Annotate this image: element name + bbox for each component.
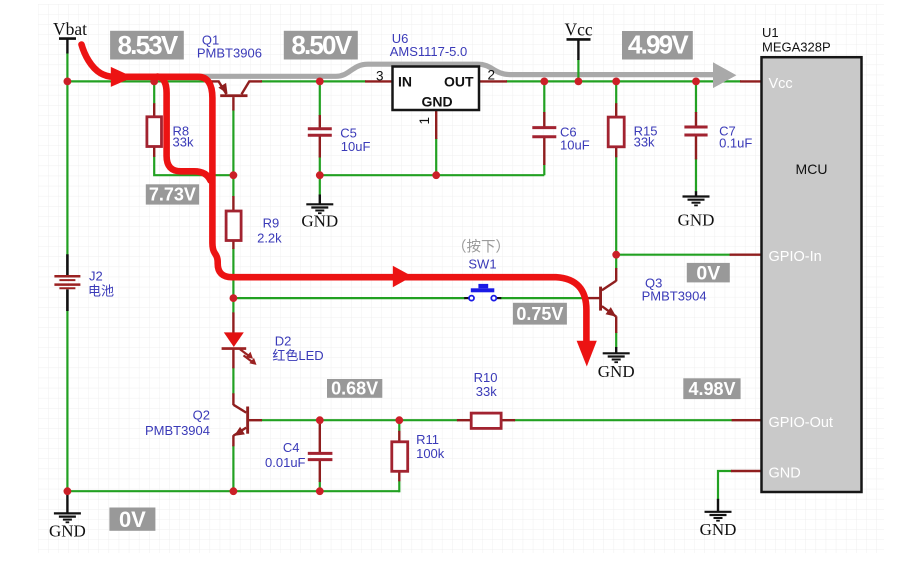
capacitor C6	[532, 125, 589, 153]
wire Q2 base to R10	[261, 419, 458, 421]
capacitor C5	[308, 126, 371, 155]
svg-text:33k: 33k	[476, 384, 497, 399]
pin lead R10 left	[457, 419, 472, 421]
pin lead C4 top	[319, 420, 321, 452]
wire R11 top stub	[398, 420, 400, 432]
pin lead C4 bottom	[319, 461, 321, 482]
svg-text:AMS1117-5.0: AMS1117-5.0	[390, 44, 468, 59]
node C4 top junction	[316, 416, 324, 424]
pin lead R11 bottom	[398, 470, 400, 481]
svg-text:33k: 33k	[634, 135, 655, 150]
wire C6 top stub	[543, 81, 545, 113]
red flow arrowhead into bus	[111, 67, 133, 87]
svg-text:U1: U1	[762, 25, 779, 40]
ground under Q3	[598, 347, 635, 381]
wire R15 top stub	[615, 81, 617, 104]
wire Vcc terminal stub	[577, 59, 579, 81]
voltage annotation 4.99V	[622, 30, 693, 60]
svg-text:PMBT3904: PMBT3904	[642, 289, 707, 304]
capacitor C4	[265, 440, 332, 470]
node Vcc junction	[575, 78, 583, 86]
svg-text:8.53V: 8.53V	[118, 30, 179, 60]
pin lead R15 bottom	[615, 146, 617, 158]
node GPIO-In junction	[612, 251, 620, 259]
wire C5 bottom stub	[319, 157, 321, 176]
gray Vcc supply highlight path	[194, 62, 736, 88]
gray flow arrowhead (over bus wire)	[713, 62, 736, 88]
svg-text:IN: IN	[398, 74, 412, 90]
svg-text:GND: GND	[49, 522, 86, 541]
svg-text:红色LED: 红色LED	[272, 348, 323, 363]
node C6 top junction	[540, 78, 548, 86]
pin lead Q2 base	[249, 419, 262, 421]
svg-text:GND: GND	[421, 94, 452, 110]
power terminal Vbat	[53, 19, 87, 53]
resistor R9	[226, 211, 282, 246]
pin lead C7 top	[695, 112, 697, 128]
wire Q3 collector stub	[615, 255, 617, 269]
pin lead U6 pin3 IN	[365, 80, 393, 82]
pin lead D2 cathode	[232, 349, 234, 368]
pin lead MCU Vcc	[740, 80, 761, 82]
svg-text:4.98V: 4.98V	[688, 379, 735, 399]
svg-text:SW1: SW1	[468, 257, 496, 272]
svg-text:PMBT3904: PMBT3904	[145, 423, 210, 438]
red current flow path main	[82, 45, 587, 343]
wire C4 bottom stub	[319, 481, 321, 492]
svg-text:0.1uF: 0.1uF	[719, 136, 752, 151]
svg-text:1: 1	[417, 117, 432, 125]
node ground rail left junction	[64, 487, 72, 495]
wire C6 bottom corner	[543, 164, 545, 175]
pin lead C7 bottom	[695, 136, 697, 160]
voltage annotation 8.50V	[284, 30, 358, 60]
pin lead R9 top	[232, 196, 234, 212]
wire R15 bottom to GPIO-In node	[615, 156, 617, 254]
svg-text:MCU: MCU	[796, 161, 828, 177]
pin lead R15 top	[615, 103, 617, 118]
wire Vbat terminal stub	[66, 53, 68, 82]
svg-text:0.01uF: 0.01uF	[265, 455, 306, 470]
pin lead GPIO-In	[730, 253, 761, 255]
voltage annotation 0.75V	[513, 303, 567, 325]
pin lead Q3 collector	[615, 268, 617, 281]
svg-text:0.68V: 0.68V	[331, 379, 378, 399]
pin lead U6 pin2 OUT	[479, 80, 507, 82]
svg-text:OUT: OUT	[444, 74, 474, 90]
transistor Q2 PMBT3904	[145, 405, 249, 438]
svg-text:7.73V: 7.73V	[149, 185, 196, 205]
LED D2	[222, 332, 324, 365]
pin lead R11 top	[398, 431, 400, 443]
regulator U6 AMS1117-5.0	[376, 31, 495, 125]
ground bottom right under MCU	[700, 499, 737, 539]
red flow arrowhead down at Q3	[577, 341, 597, 367]
pin lead Q1 emitter bus stub	[207, 80, 220, 82]
wire Q1 base down	[232, 110, 234, 176]
pin lead R9 bottom	[232, 240, 234, 249]
battery J2	[54, 254, 114, 311]
node C7 top junction	[692, 78, 700, 86]
red flow arrowhead toward switch	[393, 266, 413, 287]
wire ground rail	[67, 490, 399, 492]
wire GND bus under regulator	[320, 174, 545, 176]
pin lead GPIO-Out	[732, 419, 761, 421]
transistor Q3 PMBT3904	[599, 276, 707, 317]
pin lead C6 top	[543, 112, 545, 127]
wire GPIO-In node to pin	[616, 254, 730, 256]
pin lead R8 top	[153, 103, 155, 118]
svg-text:3: 3	[376, 68, 384, 83]
svg-text:PMBT3906: PMBT3906	[197, 46, 262, 61]
node Q2 emitter rail junction	[230, 487, 238, 495]
wire MCU GND pin corner	[718, 471, 732, 500]
wire SW node to switch	[233, 297, 465, 299]
pin lead C6 bottom	[543, 138, 545, 165]
svg-text:33k: 33k	[173, 134, 194, 149]
wire LED cathode to Q2 collector	[232, 367, 234, 394]
red current flow branch through R8	[158, 77, 211, 181]
svg-text:R10: R10	[474, 370, 498, 385]
svg-text:J2: J2	[89, 268, 103, 283]
pin lead D2 anode	[232, 312, 234, 333]
pin lead R10 right	[500, 419, 515, 421]
capacitor C7	[684, 123, 752, 150]
MCU U1 MEGA328P	[762, 25, 862, 492]
wire C7 ground stub	[695, 158, 697, 192]
node R9 bottom junction	[230, 294, 238, 302]
pin lead Q1 collector bus stub	[249, 80, 263, 82]
resistor R15	[608, 117, 657, 149]
pin lead Q3 base	[584, 297, 600, 299]
ground under C5	[301, 195, 338, 231]
node R8 top junction	[150, 78, 158, 86]
voltage annotation 7.73V	[146, 184, 199, 204]
wire left vertical to battery	[66, 81, 68, 255]
svg-text:Vcc: Vcc	[565, 20, 593, 40]
node C4 bottom rail junction	[316, 487, 324, 495]
resistor R8	[147, 117, 194, 150]
svg-text:R11: R11	[416, 432, 439, 447]
wire top bus left segment	[66, 80, 208, 82]
ground under C7	[678, 191, 715, 230]
node U6 GND junction	[432, 171, 440, 179]
svg-text:Vcc: Vcc	[769, 76, 793, 92]
power terminal Vcc	[565, 20, 593, 60]
wire C5 top stub	[319, 81, 321, 116]
wire top bus Q1 to IN	[261, 80, 366, 82]
svg-text:GND: GND	[700, 520, 737, 539]
wire C5 ground stub	[319, 175, 321, 195]
svg-text:C4: C4	[283, 440, 300, 455]
node R8 R9 Q1-base junction	[230, 171, 238, 179]
voltage annotation 0.68V	[327, 379, 382, 399]
svg-text:D2: D2	[275, 334, 292, 349]
resistor R11	[392, 432, 445, 471]
svg-text:GND: GND	[678, 211, 715, 230]
wire R8 top stub	[153, 81, 155, 104]
svg-text:8.50V: 8.50V	[291, 30, 352, 60]
svg-text:100k: 100k	[416, 446, 445, 461]
wire R9 top stub	[232, 175, 234, 197]
svg-text:4.99V: 4.99V	[628, 30, 689, 60]
resistor R10	[471, 370, 501, 428]
svg-text:2.2k: 2.2k	[257, 231, 282, 246]
svg-text:GND: GND	[769, 465, 801, 481]
wire R11 bottom stub	[398, 480, 400, 492]
pin lead U6 pin1 GND	[435, 110, 437, 139]
voltage annotation 8.53V	[110, 30, 184, 60]
svg-text:MEGA328P: MEGA328P	[762, 40, 831, 55]
wire battery to ground rail	[66, 310, 68, 492]
svg-text:R9: R9	[263, 216, 280, 231]
node C5 bottom junction	[316, 171, 324, 179]
node C5 top junction	[316, 78, 324, 86]
pin lead Q3 emitter	[615, 316, 617, 333]
pin lead C5 bottom	[319, 136, 321, 158]
svg-text:GPIO-In: GPIO-In	[769, 249, 822, 265]
pin lead C5 top	[319, 115, 321, 128]
wire Q3 emitter to ground	[615, 332, 617, 348]
wire U6 GND pin down	[435, 138, 437, 175]
pin lead Q1 base	[232, 97, 234, 110]
svg-text:GND: GND	[598, 362, 635, 381]
svg-text:GPIO-Out: GPIO-Out	[769, 415, 833, 431]
svg-text:10uF: 10uF	[560, 138, 590, 153]
svg-text:GND: GND	[301, 211, 338, 230]
svg-text:Vbat: Vbat	[53, 19, 87, 39]
pin lead R8 bottom	[153, 146, 155, 157]
node R15 top junction	[612, 78, 620, 86]
wire R8 bottom to node	[154, 156, 233, 175]
wire R9 bottom to SW node	[232, 248, 234, 298]
wire Q2 emitter to ground rail	[232, 445, 234, 492]
switch SW1	[464, 257, 501, 301]
node R11 top junction	[395, 416, 403, 424]
wire R10 to GPIO-Out pin	[514, 419, 733, 421]
transistor Q1 PMBT3906	[197, 33, 262, 98]
svg-text:0.75V: 0.75V	[516, 304, 563, 324]
wire node to LED anode	[232, 298, 234, 313]
svg-text:（按下）: （按下）	[452, 238, 510, 255]
svg-text:10uF: 10uF	[341, 139, 371, 154]
svg-text:0V: 0V	[119, 507, 146, 532]
voltage annotation 0V bottom left	[109, 507, 155, 532]
svg-text:电池: 电池	[88, 284, 114, 299]
gray flow shaft end over wires	[700, 72, 714, 77]
wire top bus right of regulator	[506, 80, 741, 82]
svg-text:Q2: Q2	[193, 408, 210, 423]
svg-text:2: 2	[488, 68, 496, 83]
pin lead MCU GND	[731, 470, 761, 472]
pin lead Q2 emitter	[232, 435, 234, 446]
ground bottom left	[49, 493, 86, 541]
wire C7 top stub	[695, 81, 697, 113]
wire switch to Q3 base	[501, 297, 586, 299]
node Vbat bus junction	[64, 78, 72, 86]
svg-text:0V: 0V	[696, 262, 720, 284]
voltage annotation 4.98V	[683, 378, 740, 399]
voltage annotation 0V at GPIO-In	[687, 262, 730, 284]
pin lead Q2 collector top	[232, 393, 234, 405]
